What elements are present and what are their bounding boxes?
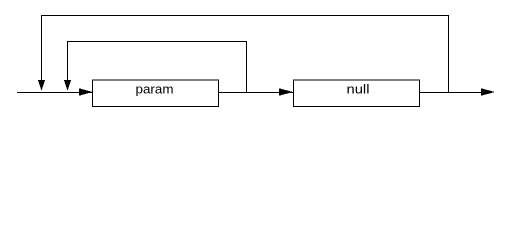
wire: outer loop left vertical [41, 15, 43, 81]
wire: main line between param and null [218, 92, 293, 94]
arrowhead: outer loop down arrow [38, 80, 45, 91]
wire: main line entry segment [17, 92, 92, 94]
box: param [93, 80, 219, 107]
box: null [294, 80, 420, 107]
wire: inner loop left vertical [67, 41, 69, 81]
wire: outer loop right vertical [448, 15, 450, 93]
svg-text:null: null [347, 82, 370, 97]
wire: inner loop top horizontal [67, 41, 247, 43]
arrowhead: into null box [279, 88, 293, 96]
arrowhead: into param box [79, 88, 93, 96]
wire: main line exit segment [419, 92, 483, 94]
wire: outer loop top horizontal [41, 15, 449, 17]
arrowhead: inner loop down arrow [64, 80, 71, 91]
arrowhead: final exit arrow [481, 88, 495, 96]
svg-text:param: param [136, 82, 174, 97]
wire: inner loop right vertical [246, 41, 248, 93]
